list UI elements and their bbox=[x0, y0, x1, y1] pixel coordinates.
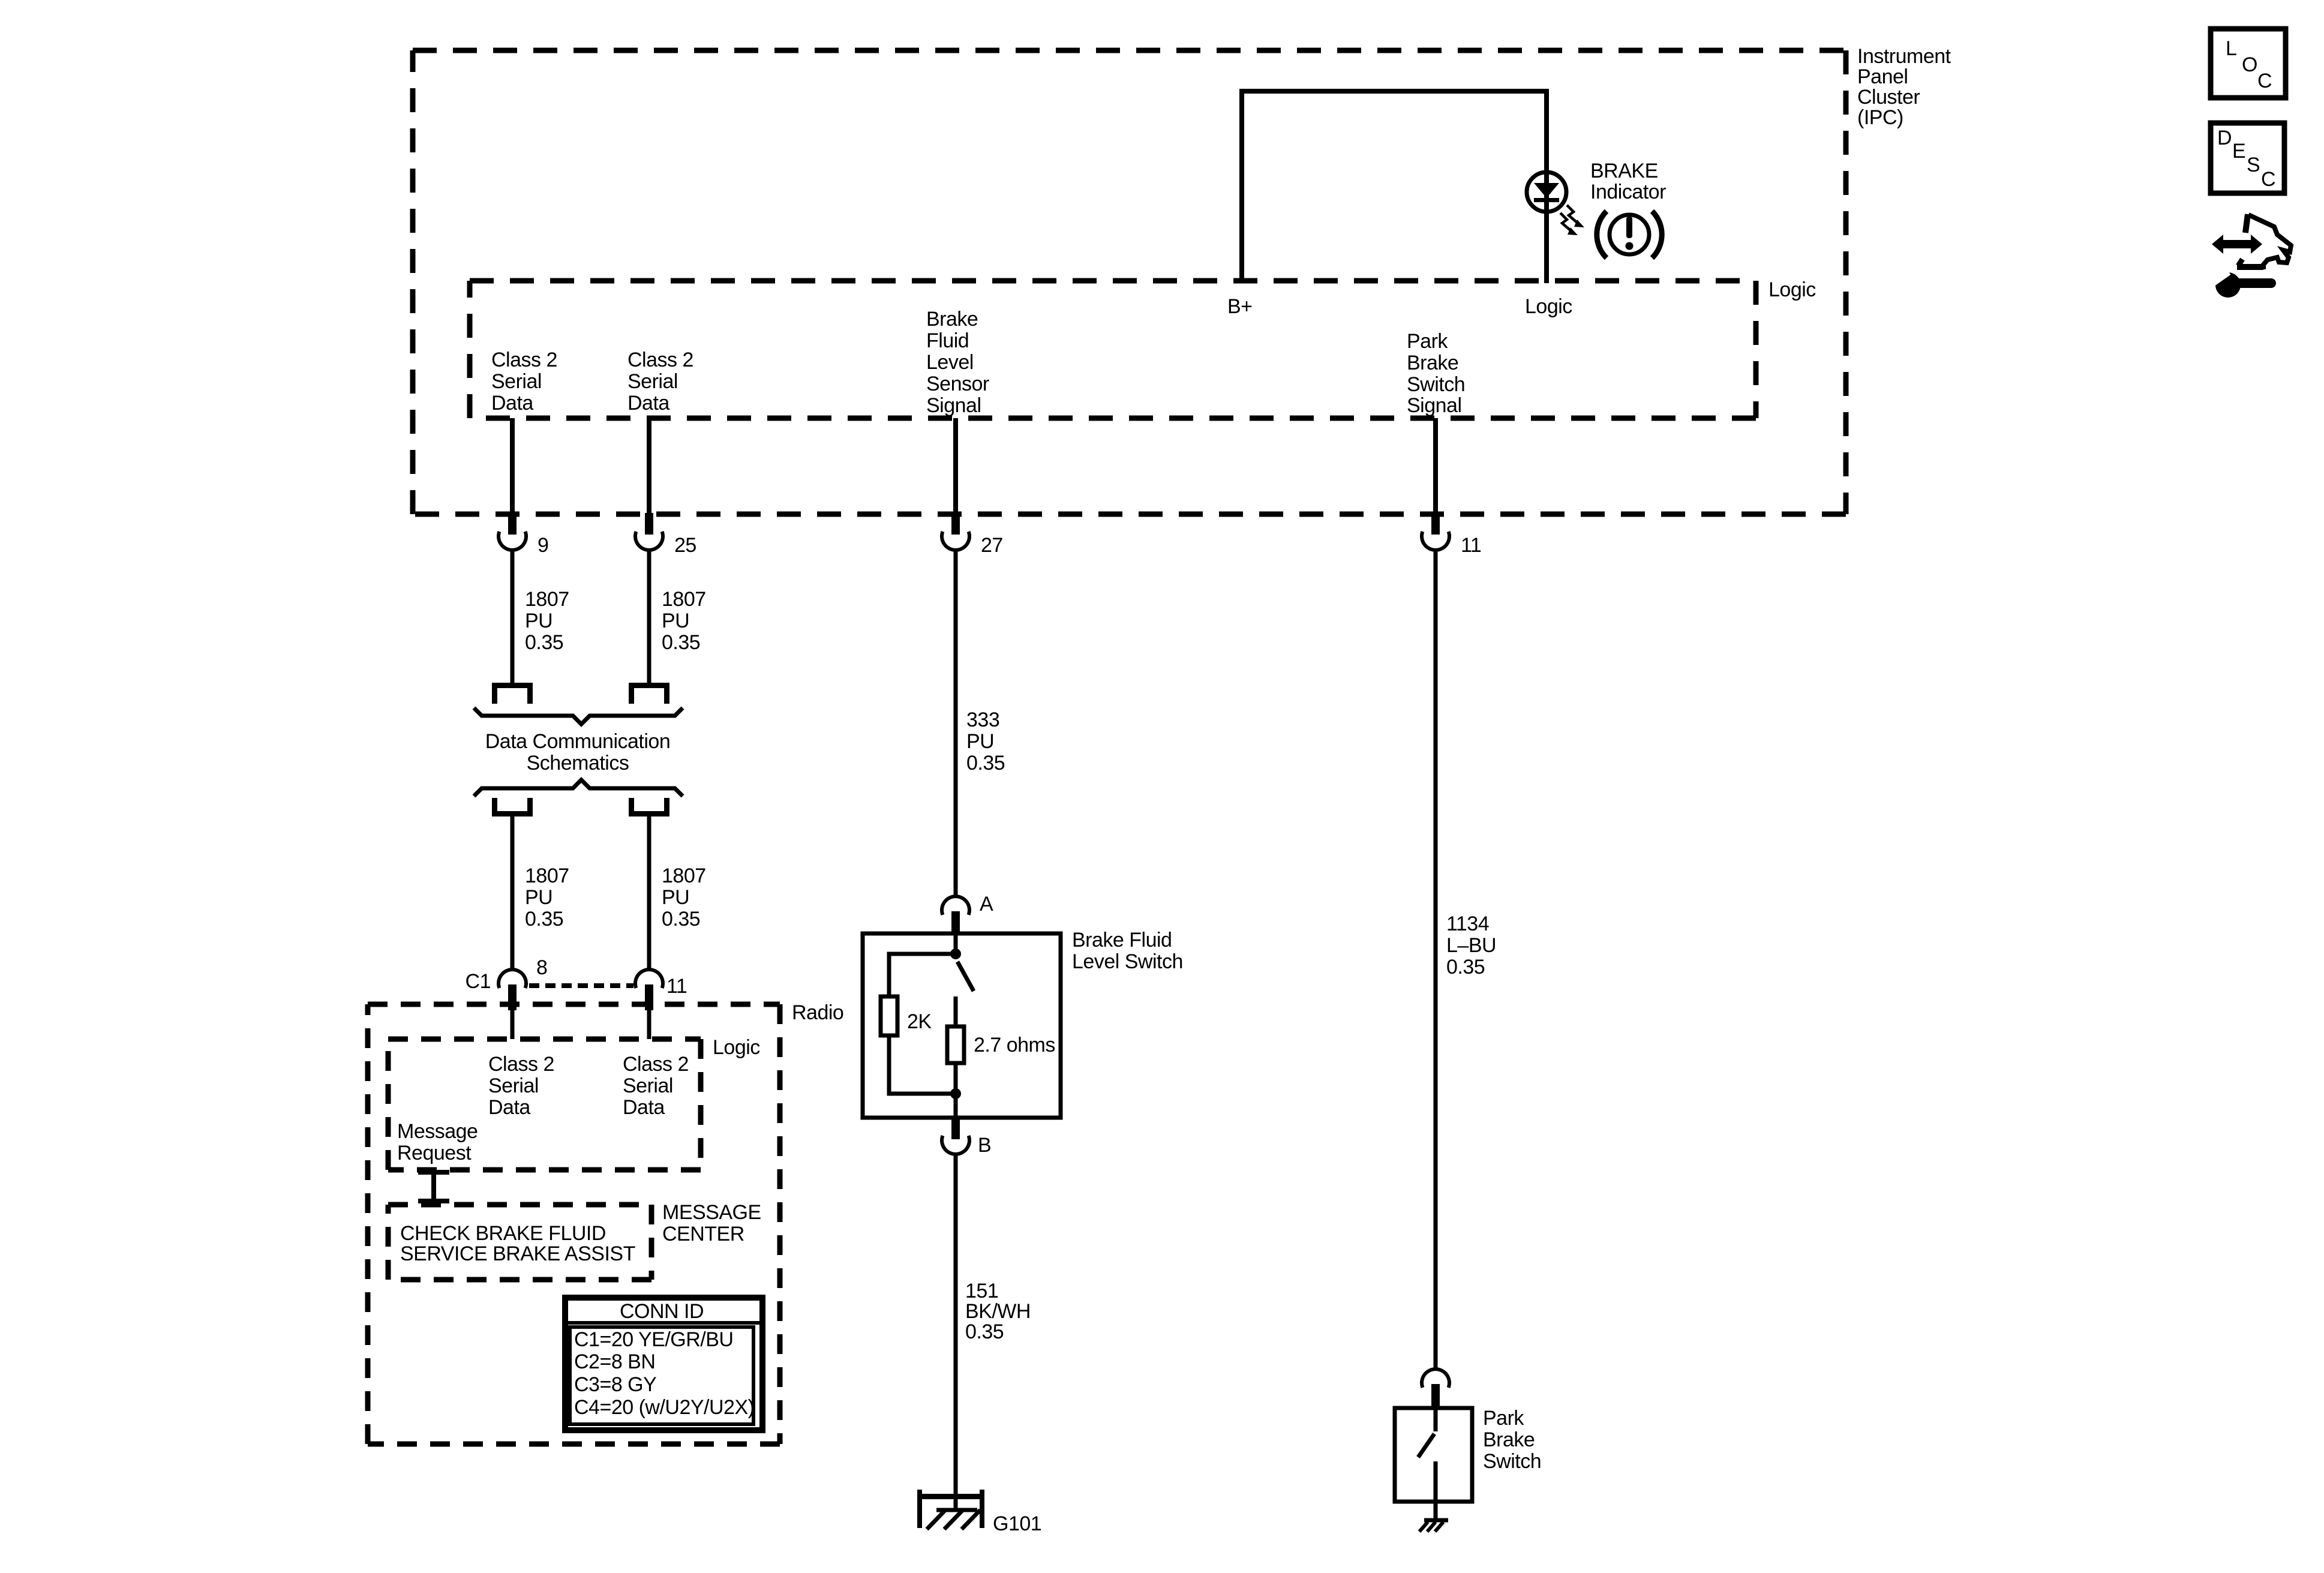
svg-text:L: L bbox=[2226, 37, 2236, 60]
svg-text:2K: 2K bbox=[907, 1010, 932, 1033]
connector C1 pin 11 bbox=[635, 969, 663, 1010]
svg-text:Schematics: Schematics bbox=[527, 752, 629, 775]
Brake Fluid Level Switch box bbox=[863, 933, 1061, 1118]
connector pin 25 bbox=[635, 513, 663, 550]
radio pin label Class 2 Serial Data right bbox=[623, 1053, 689, 1119]
svg-text:Park: Park bbox=[1407, 330, 1448, 353]
IPC label bbox=[1857, 45, 1951, 129]
svg-text:C4=20 (w/U2Y/U2X): C4=20 (w/U2Y/U2X) bbox=[574, 1396, 754, 1419]
off-page connector lower left bbox=[492, 798, 533, 816]
svg-text:BK/WH: BK/WH bbox=[965, 1300, 1031, 1323]
svg-text:0.35: 0.35 bbox=[662, 631, 700, 654]
wire label 1807 PU 0.35 bbox=[662, 588, 706, 654]
wire pin11 drop bbox=[1433, 418, 1438, 514]
svg-text:PU: PU bbox=[966, 730, 994, 753]
svg-text:A: A bbox=[980, 893, 993, 915]
LED light arrows bbox=[1560, 205, 1584, 235]
connector pin 27 bbox=[942, 513, 969, 550]
svg-text:CHECK BRAKE FLUID: CHECK BRAKE FLUID bbox=[400, 1222, 606, 1245]
off-page connector lower right bbox=[629, 798, 669, 816]
IPC logic inner dashed box bbox=[470, 281, 1756, 418]
svg-text:CONN ID: CONN ID bbox=[620, 1300, 704, 1323]
svg-text:O: O bbox=[2242, 53, 2257, 76]
svg-text:SERVICE BRAKE ASSIST: SERVICE BRAKE ASSIST bbox=[400, 1242, 635, 1265]
label MESSAGE CENTER bbox=[662, 1201, 761, 1245]
data link vehicle icon bbox=[2212, 214, 2291, 269]
svg-text:Data: Data bbox=[623, 1096, 665, 1119]
svg-text:0.35: 0.35 bbox=[662, 908, 700, 930]
svg-text:0.35: 0.35 bbox=[1446, 956, 1485, 978]
svg-text:S: S bbox=[2247, 154, 2260, 176]
svg-text:C: C bbox=[2261, 168, 2275, 191]
message center text bbox=[400, 1222, 635, 1265]
LED lamp symbol bbox=[1527, 91, 1566, 283]
wire label 1134 L-BU 0.35 bbox=[1446, 912, 1496, 978]
wrench icon bbox=[2211, 269, 2276, 298]
svg-text:Cluster: Cluster bbox=[1857, 86, 1920, 109]
svg-text:0.35: 0.35 bbox=[965, 1320, 1004, 1343]
label Brake Fluid Level Switch bbox=[1072, 929, 1183, 973]
svg-text:C2=8 BN: C2=8 BN bbox=[574, 1350, 655, 1373]
svg-text:333: 333 bbox=[966, 709, 999, 731]
brake warning lamp icon bbox=[1597, 211, 1662, 258]
svg-text:25: 25 bbox=[674, 534, 696, 557]
IPC outer dashed box bbox=[413, 50, 1846, 514]
svg-text:Panel: Panel bbox=[1857, 65, 1908, 88]
svg-text:E: E bbox=[2232, 140, 2245, 163]
BRAKE Indicator label bbox=[1590, 160, 1666, 203]
svg-text:Instrument: Instrument bbox=[1857, 45, 1951, 68]
LOC icon box bbox=[2211, 29, 2286, 98]
wire label 151 BK/WH 0.35 bbox=[965, 1280, 1031, 1343]
pin label Class 2 Serial Data (pin 9) bbox=[491, 349, 557, 415]
svg-text:Request: Request bbox=[397, 1142, 472, 1164]
svg-text:11: 11 bbox=[1461, 534, 1481, 557]
wire label 1807 PU 0.35 bbox=[662, 864, 706, 930]
off-page connector upper right bbox=[629, 683, 669, 704]
pin label Class 2 Serial Data (pin 25) bbox=[627, 349, 693, 415]
Radio dashed box bbox=[368, 1004, 780, 1444]
message request stub bbox=[418, 1170, 449, 1205]
svg-text:Serial: Serial bbox=[623, 1074, 673, 1097]
svg-text:Serial: Serial bbox=[491, 370, 542, 393]
svg-text:CENTER: CENTER bbox=[662, 1223, 744, 1245]
wire pin9 drop bbox=[510, 418, 515, 514]
svg-text:0.35: 0.35 bbox=[525, 908, 563, 930]
svg-text:Class 2: Class 2 bbox=[627, 349, 693, 371]
svg-text:2.7 ohms: 2.7 ohms bbox=[974, 1034, 1055, 1056]
wire 1134 L-BU bbox=[1434, 550, 1438, 1370]
svg-text:Brake Fluid: Brake Fluid bbox=[1072, 929, 1172, 951]
svg-text:27: 27 bbox=[981, 534, 1003, 557]
svg-text:BRAKE: BRAKE bbox=[1590, 160, 1658, 182]
svg-text:Data Communication: Data Communication bbox=[485, 730, 670, 753]
svg-text:0.35: 0.35 bbox=[966, 752, 1005, 775]
svg-text:C: C bbox=[2257, 70, 2272, 92]
Radio logic dashed box bbox=[388, 1039, 701, 1170]
park switch internals bbox=[1418, 1408, 1436, 1502]
pin label Brake Fluid Level Sensor Signal bbox=[926, 308, 989, 417]
svg-text:Fluid: Fluid bbox=[926, 329, 969, 352]
ground G101 bbox=[917, 1490, 984, 1529]
svg-text:(IPC): (IPC) bbox=[1857, 106, 1903, 129]
svg-text:Data: Data bbox=[491, 392, 533, 415]
svg-text:Switch: Switch bbox=[1407, 373, 1465, 396]
svg-text:Brake: Brake bbox=[1483, 1428, 1535, 1451]
svg-text:Level Switch: Level Switch bbox=[1072, 950, 1183, 973]
svg-text:Data: Data bbox=[488, 1096, 530, 1119]
svg-text:PU: PU bbox=[662, 886, 689, 909]
svg-text:9: 9 bbox=[538, 534, 548, 557]
svg-text:Sensor: Sensor bbox=[926, 373, 989, 395]
svg-text:Logic: Logic bbox=[1525, 295, 1572, 318]
svg-text:Radio: Radio bbox=[792, 1001, 843, 1024]
brace upper bbox=[474, 708, 683, 724]
svg-text:C1=20 YE/GR/BU: C1=20 YE/GR/BU bbox=[574, 1328, 733, 1351]
svg-text:PU: PU bbox=[662, 610, 689, 632]
svg-text:Logic: Logic bbox=[713, 1036, 760, 1059]
svg-text:C3=8 GY: C3=8 GY bbox=[574, 1373, 656, 1396]
svg-text:1807: 1807 bbox=[525, 588, 569, 611]
svg-text:1807: 1807 bbox=[662, 864, 706, 887]
svg-text:151: 151 bbox=[965, 1280, 998, 1302]
wire into radio right bbox=[647, 1010, 651, 1039]
svg-text:1807: 1807 bbox=[662, 588, 706, 611]
svg-text:MESSAGE: MESSAGE bbox=[662, 1201, 761, 1224]
wire into radio left bbox=[511, 1010, 515, 1039]
message center dashed box bbox=[388, 1205, 651, 1280]
svg-text:Data: Data bbox=[627, 392, 669, 415]
svg-text:B: B bbox=[978, 1134, 991, 1157]
connector pin B bbox=[942, 1118, 969, 1154]
connector pin 9 bbox=[499, 513, 526, 550]
connector C1 dashed link bbox=[529, 983, 633, 988]
wire 1807 PU right lower bbox=[647, 816, 651, 969]
svg-text:Class 2: Class 2 bbox=[488, 1053, 554, 1076]
svg-text:Message: Message bbox=[397, 1120, 478, 1143]
wire 1807 PU left lower bbox=[511, 816, 515, 969]
svg-text:G101: G101 bbox=[993, 1512, 1041, 1535]
svg-text:C1: C1 bbox=[466, 970, 491, 993]
resistor 2K bbox=[881, 996, 897, 1035]
connector pin 11 bbox=[1422, 513, 1449, 550]
DESC icon box bbox=[2211, 123, 2284, 193]
resistor 2.7 ohms bbox=[947, 1026, 964, 1063]
svg-text:1807: 1807 bbox=[525, 864, 569, 887]
wire pin27 drop bbox=[953, 418, 958, 514]
label Message Request bbox=[397, 1120, 478, 1164]
svg-text:L–BU: L–BU bbox=[1446, 934, 1496, 957]
svg-text:D: D bbox=[2217, 127, 2232, 149]
wire pin25 drop bbox=[647, 418, 651, 514]
svg-text:Class 2: Class 2 bbox=[491, 349, 557, 371]
svg-text:Serial: Serial bbox=[488, 1074, 539, 1097]
wire 1807 PU right upper bbox=[647, 550, 651, 683]
svg-text:Level: Level bbox=[926, 351, 974, 374]
wire 333 PU middle bbox=[954, 550, 958, 897]
CONN ID table bbox=[565, 1298, 762, 1430]
svg-text:Brake: Brake bbox=[1407, 352, 1458, 374]
svg-text:Logic: Logic bbox=[1768, 278, 1816, 301]
svg-text:Park: Park bbox=[1483, 1407, 1524, 1430]
svg-text:1134: 1134 bbox=[1446, 912, 1489, 935]
svg-text:PU: PU bbox=[525, 886, 553, 909]
svg-text:11: 11 bbox=[666, 975, 687, 998]
svg-text:Switch: Switch bbox=[1483, 1450, 1541, 1473]
connector pin A bbox=[942, 896, 969, 934]
wire label 333 PU 0.35 bbox=[966, 709, 1005, 775]
svg-text:Brake: Brake bbox=[926, 308, 978, 331]
park switch ground bbox=[1419, 1520, 1448, 1532]
connector C1 pin 8 bbox=[499, 969, 526, 1010]
svg-text:Class 2: Class 2 bbox=[623, 1053, 689, 1076]
svg-text:PU: PU bbox=[525, 610, 553, 632]
connector pin park switch bbox=[1422, 1369, 1449, 1408]
svg-text:Signal: Signal bbox=[1407, 394, 1462, 417]
Park Brake Switch box bbox=[1395, 1408, 1472, 1502]
park switch ground wire bbox=[1434, 1502, 1438, 1520]
svg-text:0.35: 0.35 bbox=[525, 631, 563, 654]
wire B+ to LED loop bbox=[1242, 91, 1547, 281]
off-page connector upper left bbox=[492, 683, 533, 704]
wire label 1807 PU 0.35 bbox=[525, 588, 569, 654]
wire 151 BK/WH bbox=[954, 1155, 958, 1511]
svg-text:Indicator: Indicator bbox=[1590, 181, 1666, 203]
label Park Brake Switch bbox=[1483, 1407, 1541, 1473]
brace lower bbox=[474, 780, 683, 796]
svg-text:8: 8 bbox=[536, 956, 547, 979]
radio pin label Class 2 Serial Data left bbox=[488, 1053, 554, 1119]
label Data Communication Schematics bbox=[485, 730, 670, 775]
switch internal wiring bbox=[889, 933, 974, 1118]
svg-text:Signal: Signal bbox=[926, 394, 981, 417]
svg-text:B+: B+ bbox=[1227, 295, 1253, 318]
wire label 1807 PU 0.35 bbox=[525, 864, 569, 930]
svg-text:Serial: Serial bbox=[627, 370, 678, 393]
pin label Park Brake Switch Signal bbox=[1407, 330, 1465, 417]
wire 1807 PU left upper bbox=[511, 550, 515, 683]
